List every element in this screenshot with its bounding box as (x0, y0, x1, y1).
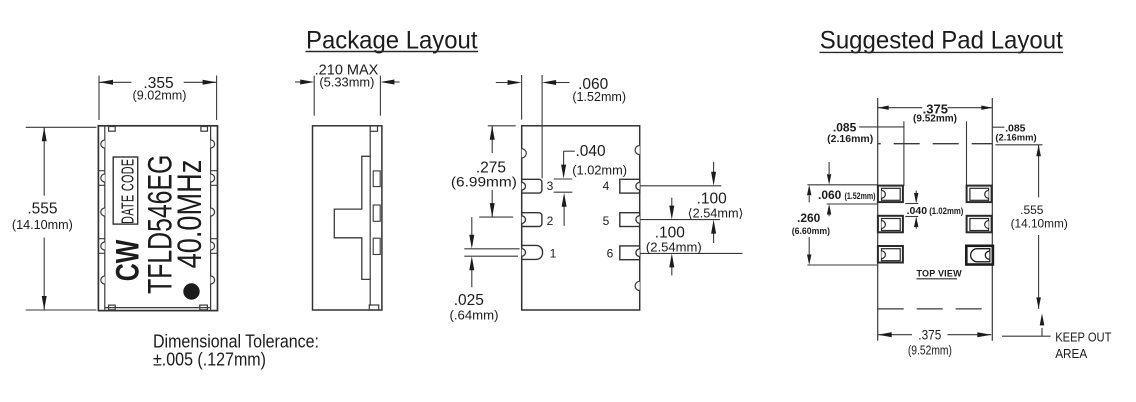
dim .100 lower arrows (671, 198, 673, 208)
svg-text:⟨2.54mm⟩: ⟨2.54mm⟩ (688, 206, 744, 220)
side pad 2 (373, 205, 380, 221)
svg-text:(1.02mm): (1.02mm) (572, 164, 627, 178)
keep out leader (1002, 335, 1051, 337)
side top corner square (370, 126, 377, 132)
svg-text:.555: .555 (27, 201, 57, 218)
castellation notches left wall (101, 140, 105, 284)
pad pin 5 (620, 213, 640, 227)
svg-text:1: 1 (550, 246, 557, 260)
svg-text:.040: .040 (576, 143, 607, 160)
svg-text:3: 3 (547, 179, 554, 193)
package inner wall lines (105, 127, 211, 310)
svg-text:Package Layout: Package Layout (306, 27, 478, 55)
castellation arcs pins 4,5,6 (636, 182, 640, 256)
dim .100 upper arrows (713, 162, 715, 173)
pin extension lines right (641, 186, 743, 254)
pad pin 6 (620, 246, 640, 260)
svg-text:5: 5 (603, 214, 610, 228)
svg-text:.260: .260 (797, 211, 821, 225)
svg-text:.100: .100 (697, 191, 728, 208)
svg-text:KEEP OUT: KEEP OUT (1055, 330, 1112, 344)
svg-text:2: 2 (547, 214, 554, 228)
pad layout left pad C (878, 246, 903, 263)
pad layout right pad A (967, 186, 992, 203)
svg-text:(5.33mm): (5.33mm) (319, 76, 374, 90)
dim .040 leader and arrows (554, 151, 575, 226)
svg-text:(2.54mm): (2.54mm) (646, 240, 702, 254)
dim .210 MAX arrows (295, 81, 302, 83)
dim .275 line and arrows (491, 126, 493, 217)
date code label (119, 159, 138, 224)
dim .375 bottom (878, 334, 992, 336)
side pad 3 (373, 238, 380, 254)
keepout boundary verticals (878, 98, 993, 341)
castellation pad ticks (98, 171, 217, 254)
castellation notches right wall (211, 140, 215, 284)
keepout dashed bottom (878, 308, 993, 310)
svg-text:(6.99mm): (6.99mm) (451, 175, 517, 190)
svg-text:(14.10mm): (14.10mm) (1011, 217, 1068, 231)
dim .355 extension lines (99, 76, 217, 121)
svg-text:TOP VIEW: TOP VIEW (917, 269, 963, 279)
pin view edge notch left (522, 149, 527, 158)
svg-text:(2.16mm): (2.16mm) (827, 133, 873, 145)
svg-text:.375: .375 (918, 326, 941, 342)
svg-text:6: 6 (607, 247, 614, 261)
pad layout left pad B (878, 216, 903, 233)
dim .555 ticks (26, 127, 97, 310)
svg-text:(1.52mm): (1.52mm) (845, 191, 876, 201)
CW logo (111, 239, 147, 281)
side body outline (313, 126, 382, 310)
svg-text:Dimensional Tolerance:: Dimensional Tolerance: (153, 331, 319, 351)
dim .025 lines (464, 249, 519, 256)
dim .355 lines and arrows (99, 81, 217, 83)
frequency 40.0MHz (170, 160, 209, 269)
svg-text:(2.16mm): (2.16mm) (995, 132, 1036, 143)
dim .375 top line (878, 107, 993, 109)
part number TFLD546EG (142, 155, 180, 294)
svg-text:(14.10mm): (14.10mm) (12, 218, 73, 232)
pad pin 1 (522, 245, 543, 259)
svg-text:.060: .060 (818, 188, 842, 202)
svg-text:(.64mm): (.64mm) (450, 309, 499, 323)
package outline (front view) (98, 126, 217, 311)
svg-text:(1.02mm): (1.02mm) (929, 206, 963, 216)
side pad strip line (369, 131, 371, 305)
svg-text:40.0MHz: 40.0MHz (170, 160, 209, 269)
dim .025 arrows (471, 217, 473, 236)
svg-text:.100: .100 (655, 224, 686, 241)
svg-text:.025: .025 (454, 292, 484, 309)
pin view edge notch right bottom (635, 281, 640, 290)
svg-text:4: 4 (603, 179, 610, 193)
pad layout left pad A (878, 186, 903, 203)
pad layout right pad B (967, 216, 992, 233)
dim .555 line and arrows (43, 127, 45, 310)
castellation arcs pins 3,2,1 (522, 182, 526, 256)
pad pin 3 (522, 179, 542, 193)
dim .210 MAX extension lines (314, 76, 380, 116)
dim .085 right (992, 126, 1004, 128)
pin view edge notch right top (635, 146, 640, 155)
keepout dashed top (878, 143, 993, 145)
svg-text:DATE CODE: DATE CODE (119, 159, 138, 224)
side interior step profile (334, 156, 370, 279)
dim .060 arrows (496, 82, 508, 84)
svg-text:.040: .040 (907, 205, 928, 217)
svg-text:(9.02mm): (9.02mm) (133, 89, 187, 103)
date code box (113, 157, 138, 224)
svg-text:(1.52mm): (1.52mm) (572, 90, 626, 104)
side pad 1 (373, 171, 380, 187)
pad layout pin1 pad (bold) (966, 246, 993, 265)
dim .060 extension lines (522, 75, 543, 178)
svg-text:(6.60mm): (6.60mm) (792, 226, 830, 237)
svg-text:(9.52mm): (9.52mm) (908, 344, 952, 358)
pad pin 4 (620, 179, 640, 193)
dim .555 pad layout (995, 144, 1042, 146)
svg-text:(9.52mm): (9.52mm) (913, 114, 957, 125)
pin1 dot (183, 283, 199, 299)
dim .060 pad bracket (807, 162, 877, 216)
corner index marks (109, 127, 208, 310)
svg-text:CW: CW (111, 239, 147, 281)
pin view body outline (522, 126, 640, 310)
dim .085 left (859, 126, 904, 128)
svg-text:Suggested Pad Layout: Suggested Pad Layout (820, 27, 1063, 55)
dim .040 pad gap (905, 191, 918, 229)
svg-text:.555: .555 (1020, 203, 1044, 217)
dim .275 ticks (479, 126, 516, 217)
side bottom corner square (369, 305, 378, 310)
svg-text:AREA: AREA (1055, 347, 1088, 361)
pad pin 2 (522, 213, 542, 227)
dim .260 (807, 264, 877, 266)
svg-text:±.005 (.127mm): ±.005 (.127mm) (153, 350, 266, 370)
